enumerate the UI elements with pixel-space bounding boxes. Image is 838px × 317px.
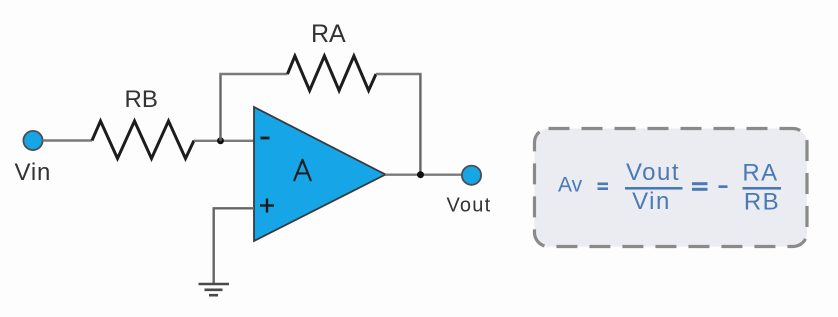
resistor RA (288, 56, 377, 91)
svg-text:Av: Av (558, 174, 583, 197)
svg-text:Vout: Vout (447, 195, 492, 217)
wire feedback top right (376, 73, 422, 75)
ground (199, 284, 230, 295)
svg-text:Vin: Vin (632, 188, 671, 215)
wire Vin to RB (43, 139, 92, 141)
svg-text:RA: RA (311, 20, 346, 48)
wire RB to node (194, 140, 254, 142)
wire feedback down to output (419, 74, 421, 175)
node output junction (417, 171, 424, 178)
wire node up to feedback (219, 74, 221, 141)
svg-text:Vout: Vout (626, 159, 680, 186)
formula box (535, 129, 808, 247)
svg-text:RA: RA (742, 160, 778, 187)
svg-text:RB: RB (744, 189, 780, 216)
svg-text:RB: RB (125, 86, 158, 113)
terminal Vin (23, 131, 42, 150)
resistor RB (92, 121, 194, 159)
terminal Vout (462, 166, 481, 185)
wire op-amp output (386, 173, 463, 175)
wire noninverting input (214, 208, 254, 283)
formula Av = Vout/Vin = - RA/RB (558, 159, 781, 216)
wire feedback top left (219, 73, 287, 75)
op-amp A (254, 107, 386, 241)
svg-text:Vin: Vin (15, 159, 52, 186)
node inverting-input junction (217, 137, 224, 144)
